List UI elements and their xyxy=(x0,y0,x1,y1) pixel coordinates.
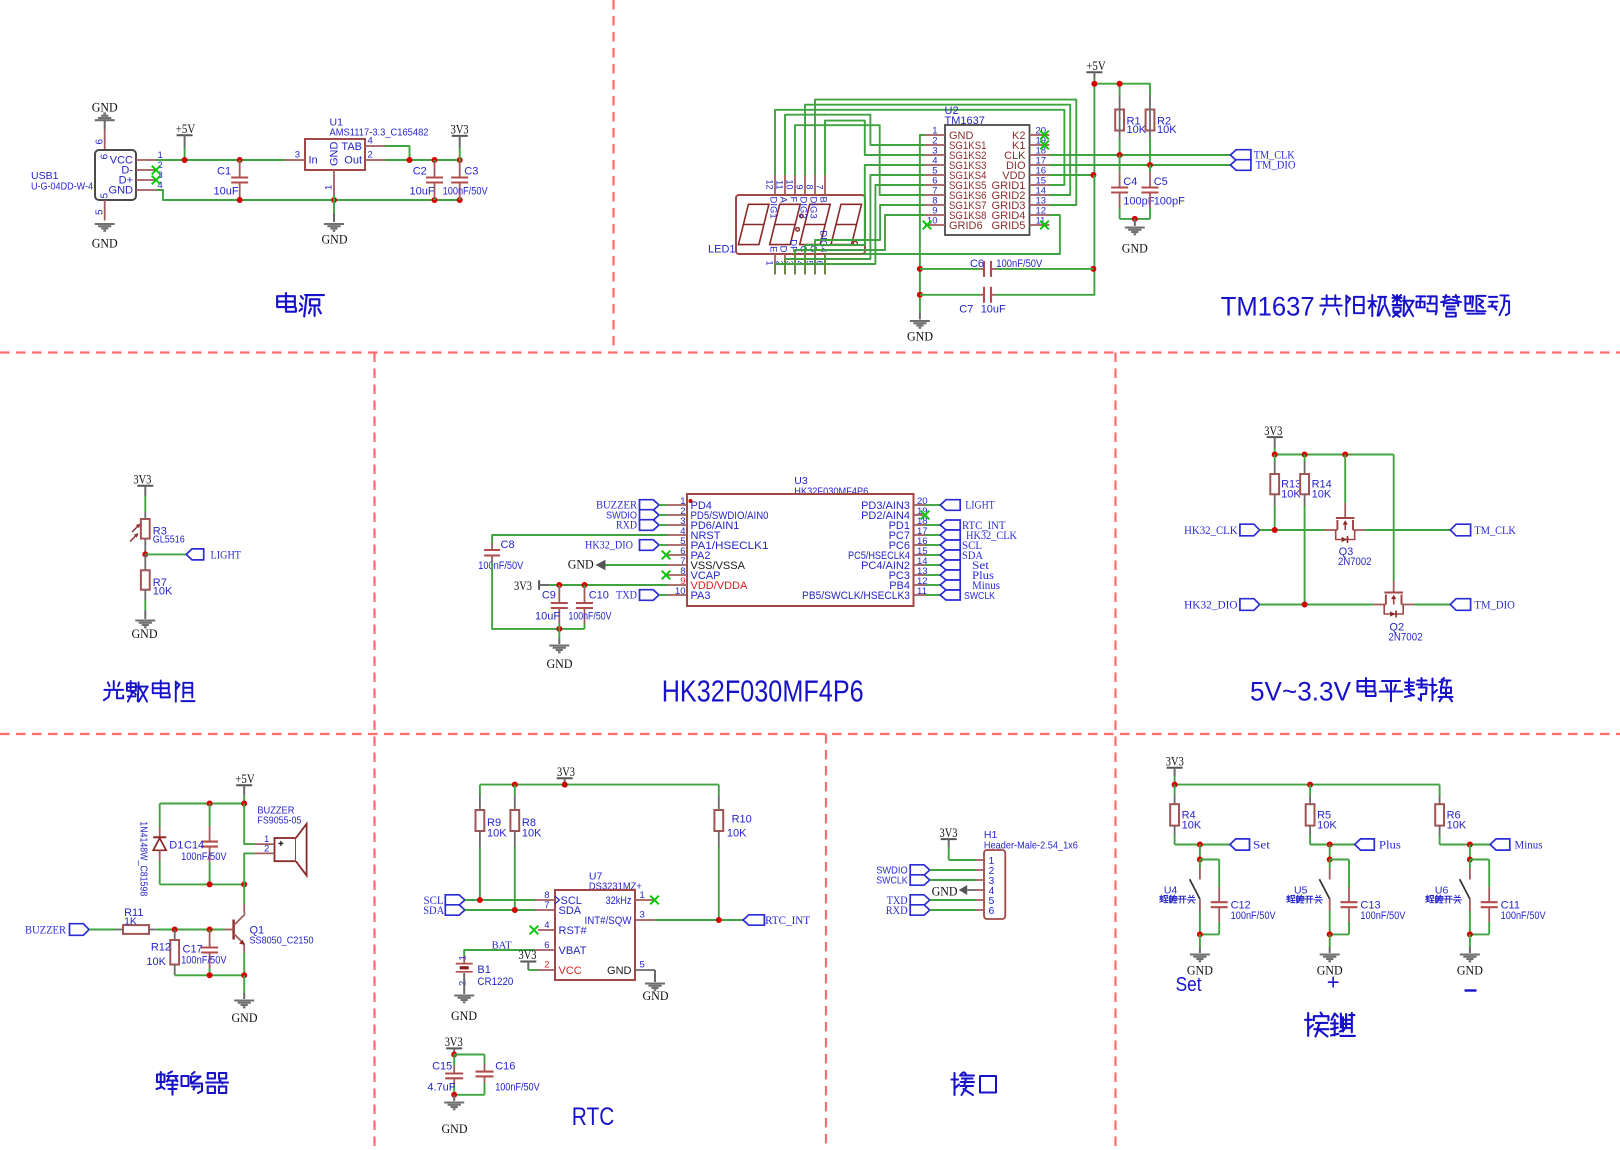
resistor R4 10K xyxy=(1174,785,1176,796)
svg-text:3V3: 3V3 xyxy=(557,765,575,779)
svg-text:C7: C7 xyxy=(959,304,973,316)
U2 pin 17 DIO xyxy=(1030,164,1050,166)
resistor R8 10K xyxy=(514,785,516,796)
U3 pin 13 PC3 xyxy=(914,574,926,576)
svg-text:3V3: 3V3 xyxy=(519,948,537,962)
svg-text:DIG1: DIG1 xyxy=(767,197,778,219)
svg-text:10uF: 10uF xyxy=(214,186,239,198)
no-connect K2 xyxy=(1040,131,1049,140)
no-connect K1 xyxy=(1040,141,1049,150)
resistor R1 10K xyxy=(1119,95,1121,110)
switch U5 tactile xyxy=(1329,860,1331,869)
svg-text:2: 2 xyxy=(544,960,549,971)
no-connect GRID5 xyxy=(1040,221,1049,230)
pin 4 TAB xyxy=(365,145,385,147)
net port SWDIO xyxy=(640,510,660,521)
wire segment D (pin2 to SG1KS4) xyxy=(785,175,925,259)
svg-text:6: 6 xyxy=(95,139,106,145)
svg-text:F: F xyxy=(787,197,798,203)
svg-text:1: 1 xyxy=(324,185,335,190)
resistor R13 10K xyxy=(1274,455,1276,463)
U2 pin 3 SG1KS2 xyxy=(925,154,945,156)
net port HK32_DIO xyxy=(640,540,660,551)
svg-text:C4: C4 xyxy=(1123,176,1137,188)
transistor Q3 2N7002 xyxy=(1344,455,1346,504)
svg-text:100nF/50V: 100nF/50V xyxy=(569,611,613,623)
LED1 bottom pin 5 G xyxy=(814,254,816,275)
capacitor C6 100nF/50V xyxy=(920,268,980,270)
svg-text:SWCLK: SWCLK xyxy=(876,875,908,887)
svg-text:GND: GND xyxy=(92,100,118,115)
svg-text:10K: 10K xyxy=(1157,124,1177,136)
svg-text:GND: GND xyxy=(1122,241,1148,256)
svg-text:+5V: +5V xyxy=(176,122,196,136)
svg-text:1: 1 xyxy=(764,261,774,266)
digit 4 outline xyxy=(831,204,862,244)
svg-text:C10: C10 xyxy=(589,590,609,602)
svg-text:R10: R10 xyxy=(732,813,752,825)
svg-text:7: 7 xyxy=(544,900,549,911)
svg-text:Out: Out xyxy=(344,155,362,167)
no-connect PA2 xyxy=(662,551,671,560)
wire collector xyxy=(243,884,245,904)
capacitor C1 10uF xyxy=(237,157,243,163)
svg-text:10K: 10K xyxy=(1312,488,1332,500)
svg-text:C3: C3 xyxy=(464,165,478,177)
svg-text:4: 4 xyxy=(368,136,373,147)
svg-text:GND: GND xyxy=(442,1121,468,1136)
net port BUZZER xyxy=(640,500,660,511)
svg-text:4: 4 xyxy=(544,920,549,931)
label - (blue) xyxy=(1465,989,1477,991)
LED1 bottom pin 2 D xyxy=(784,254,786,259)
net port SWCLK (H1) xyxy=(910,875,930,885)
net port HK32_CLK (level) xyxy=(1240,524,1260,536)
resistor R10 10K xyxy=(718,785,720,796)
svg-text:100nF/50V: 100nF/50V xyxy=(1231,910,1277,922)
svg-text:TM_DIO: TM_DIO xyxy=(1256,159,1296,171)
svg-text:In: In xyxy=(309,155,318,167)
svg-text:C6: C6 xyxy=(970,258,984,270)
svg-text:DIG2: DIG2 xyxy=(797,197,808,219)
net port Set xyxy=(925,564,940,566)
svg-text:D: D xyxy=(777,246,788,253)
svg-text:RXD: RXD xyxy=(886,905,908,917)
wire 3V3 rail (buttons) xyxy=(1175,784,1440,786)
svg-text:3V3: 3V3 xyxy=(514,579,532,593)
pin 1 VCC xyxy=(136,159,156,161)
svg-text:GND: GND xyxy=(643,988,669,1003)
H1 pin 6 xyxy=(976,909,984,911)
svg-text:GND: GND xyxy=(109,185,134,197)
U2 pin 7 SG1KS6 xyxy=(925,194,945,196)
wire NRST to C8 xyxy=(492,535,667,543)
svg-text:TM1637: TM1637 xyxy=(1221,292,1315,322)
U2 pin 16 VDD xyxy=(1030,174,1050,176)
wire segment G (pin5 to SG1KS7) xyxy=(815,205,925,254)
svg-text:100pF: 100pF xyxy=(1154,196,1185,208)
svg-text:3: 3 xyxy=(640,910,645,921)
svg-text:10uF: 10uF xyxy=(535,611,560,623)
svg-text:SDA: SDA xyxy=(559,905,582,917)
wire Q3 drain to TM_CLK xyxy=(1366,529,1451,531)
net port Minus xyxy=(925,584,940,586)
wire VCC to U1 In xyxy=(156,159,285,161)
svg-text:5: 5 xyxy=(640,960,645,971)
svg-text:SDA: SDA xyxy=(423,905,445,917)
svg-text:10K: 10K xyxy=(487,828,507,840)
svg-text:C9: C9 xyxy=(542,590,556,602)
ground GND (under C7) xyxy=(910,320,930,322)
U2 pin 2 SG1KS1 xyxy=(925,144,945,146)
svg-text:BAT: BAT xyxy=(492,940,512,952)
wire U2 GND pin1 down xyxy=(920,135,925,313)
net port RTC_INT (RTC) xyxy=(743,915,764,925)
capacitor C13 100nF/50V xyxy=(1330,859,1349,861)
svg-text:PB5/SWCLK/HSECLK3: PB5/SWCLK/HSECLK3 xyxy=(802,590,910,602)
U2 pin 1 GND xyxy=(925,134,945,136)
net port LIGHT (right) xyxy=(925,504,940,506)
capacitor C15 4.7uF xyxy=(453,1055,455,1067)
capacitor C16 100nF/50V xyxy=(454,1054,484,1056)
net port HK32_CLK xyxy=(925,534,940,536)
U7 pin 7 SDA xyxy=(535,909,555,911)
pin 2 D- xyxy=(136,169,156,171)
switch U4 tactile xyxy=(1199,860,1201,869)
svg-text:C16: C16 xyxy=(495,1061,515,1073)
svg-text:C15: C15 xyxy=(432,1061,452,1073)
svg-text:U5: U5 xyxy=(1294,884,1308,896)
svg-text:GND: GND xyxy=(932,883,958,898)
svg-text:GND: GND xyxy=(547,656,573,671)
wire +5V top rail xyxy=(160,803,245,805)
svg-text:Plus: Plus xyxy=(1379,840,1402,852)
body diode xyxy=(1384,605,1403,615)
wire SCL xyxy=(465,899,535,901)
net port Plus xyxy=(1355,839,1375,850)
U3 pin 8 VCAP xyxy=(667,574,687,576)
svg-text:LIGHT: LIGHT xyxy=(965,500,995,512)
battery B1 CR1220 xyxy=(463,956,465,964)
svg-text:GL5516: GL5516 xyxy=(153,534,185,546)
wire GND net bottom xyxy=(156,190,460,200)
svg-text:1: 1 xyxy=(458,955,469,960)
net port RTC_INT xyxy=(925,524,940,526)
net port SWCLK xyxy=(925,594,940,596)
net port TM_CLK xyxy=(1230,150,1251,161)
wire to LIGHT port xyxy=(145,553,186,555)
U2 pin 19 K1 xyxy=(1030,144,1050,146)
wire segment A (pin11 to SG1KS1) xyxy=(785,115,925,175)
substrate arrow xyxy=(1344,523,1346,531)
svg-text:B: B xyxy=(817,197,828,203)
wire +5V rail xyxy=(1094,84,1150,95)
ground GND (buzzer) xyxy=(234,999,254,1001)
svg-text:100nF/50V: 100nF/50V xyxy=(495,1082,540,1094)
svg-text:PA3: PA3 xyxy=(691,590,711,602)
svg-text:RST#: RST# xyxy=(559,925,588,937)
wire pin1 xyxy=(949,859,976,861)
U2 pin 18 CLK xyxy=(1030,154,1050,156)
ground GND (C9) xyxy=(558,629,560,639)
svg-text:FS9055-05: FS9055-05 xyxy=(257,815,301,827)
wire VDD to +5V xyxy=(1050,174,1095,176)
svg-text:6: 6 xyxy=(989,905,995,917)
svg-text:C5: C5 xyxy=(1154,176,1168,188)
decimal point xyxy=(853,241,857,245)
LED1 top pin 10 F xyxy=(794,175,796,195)
svg-text:Set: Set xyxy=(1176,974,1202,996)
U3 pin 20 PD3/AIN3 xyxy=(914,504,926,506)
connector USB1 U-G-04DD-W-4 xyxy=(95,150,136,200)
U2 pin 8 SG1KS7 xyxy=(925,204,945,206)
svg-text:10K: 10K xyxy=(1317,820,1337,832)
svg-text:10: 10 xyxy=(784,179,794,189)
resistor R5 10K xyxy=(1309,785,1311,796)
title 接口 xyxy=(952,1073,975,1096)
svg-text:3V3: 3V3 xyxy=(451,123,469,137)
wire DIG2 (pin9 to GRID2) xyxy=(805,105,1070,195)
svg-text:TXD: TXD xyxy=(616,590,637,602)
capacitor C17 100nF/50V xyxy=(209,930,211,933)
svg-text:100nF/50V: 100nF/50V xyxy=(1501,910,1547,922)
no-connect D+ xyxy=(152,176,161,185)
U3 pin 7 VSS/VSSA xyxy=(667,564,687,566)
U2 pin 6 SG1KS5 xyxy=(925,184,945,186)
U3 pin 18 PD1 xyxy=(914,524,926,526)
H1 pin 2 xyxy=(976,869,984,871)
svg-text:HK32F030MF4P6: HK32F030MF4P6 xyxy=(662,674,864,709)
svg-text:+5V: +5V xyxy=(235,772,255,786)
svg-text:GND: GND xyxy=(322,232,348,247)
svg-text:GND: GND xyxy=(92,236,118,251)
svg-text:VCC: VCC xyxy=(559,965,582,977)
svg-text:10K: 10K xyxy=(1127,124,1147,136)
U3 pin 10 PA3 xyxy=(667,594,687,596)
svg-text:100nF/50V: 100nF/50V xyxy=(1360,910,1406,922)
svg-text:11: 11 xyxy=(774,180,784,189)
wire CLK to TM_CLK xyxy=(1050,154,1231,156)
svg-text:3V3: 3V3 xyxy=(445,1035,463,1049)
LED1 top pin 12 DIG1 xyxy=(774,175,776,195)
wire Set row xyxy=(1175,844,1230,846)
svg-text:GND: GND xyxy=(568,557,594,572)
svg-text:+5V: +5V xyxy=(1086,59,1106,73)
wire branch down xyxy=(1199,845,1201,860)
wire HK32_CLK to Q3 source xyxy=(1260,529,1325,531)
digit 2 outline xyxy=(770,204,801,244)
wire DIO to TM_DIO xyxy=(1050,164,1231,166)
display LED1 4-digit 7-segment xyxy=(736,195,865,254)
LED1 bottom pin 6 DIG4 xyxy=(824,254,826,275)
net port RXD xyxy=(640,520,660,531)
wire SDA xyxy=(465,909,535,911)
net port TM_DIO (level) xyxy=(1450,599,1470,611)
svg-text:SWCLK: SWCLK xyxy=(964,590,995,602)
wire segment B (pin7 to SG1KS2) xyxy=(825,121,925,175)
svg-text:RTC: RTC xyxy=(572,1103,615,1131)
svg-text:9: 9 xyxy=(794,184,804,189)
svg-text:100nF/50V: 100nF/50V xyxy=(181,851,227,863)
U3 pin 9 VDD/VDDA xyxy=(667,584,687,586)
svg-text:3: 3 xyxy=(295,150,300,161)
LED1 bottom pin 1 E xyxy=(774,254,776,264)
svg-text:3V3: 3V3 xyxy=(1166,755,1184,769)
svg-text:3V3: 3V3 xyxy=(940,826,958,840)
wire to ground xyxy=(1197,931,1203,937)
net port HK32_DIO (level) xyxy=(1240,599,1260,611)
svg-text:10uF: 10uF xyxy=(410,186,435,198)
svg-text:32kHz: 32kHz xyxy=(606,895,632,907)
U7 pin 6 VBAT xyxy=(535,949,555,951)
wire 3V3 to Q2 gate xyxy=(1393,455,1395,578)
svg-text:TAB: TAB xyxy=(341,141,362,153)
wire DIG1 (pin12 to GRID1) xyxy=(775,110,1064,185)
wire 3V3 to VDD/VDDA xyxy=(549,584,667,586)
svg-text:7: 7 xyxy=(814,184,824,189)
wire Out to 3V3 xyxy=(385,159,460,161)
wire Minus row xyxy=(1440,844,1491,846)
svg-text:U-G-04DD-W-4: U-G-04DD-W-4 xyxy=(31,181,93,193)
LED1 top pin 8 DIG3 xyxy=(814,175,816,195)
svg-text:B1: B1 xyxy=(477,964,490,976)
U2 pin 10 GRID6 xyxy=(925,224,945,226)
no-connect GRID6 xyxy=(923,221,932,230)
capacitor C12 100nF/50V xyxy=(1200,859,1219,861)
net port TXD xyxy=(640,590,660,601)
U2 pin 11 GRID5 xyxy=(1030,224,1050,226)
gate bar xyxy=(1336,517,1355,519)
wire segment C (pin4 to SG1KS3) xyxy=(805,165,925,254)
wire INT to RTC_INT xyxy=(655,919,743,921)
svg-text:3V3: 3V3 xyxy=(133,473,151,487)
net port SCL (RTC) xyxy=(445,895,465,905)
svg-text:A: A xyxy=(777,197,788,204)
wire to ground xyxy=(1467,931,1473,937)
U7 pin 2 VCC xyxy=(538,969,556,971)
U7 pin 4 RST# xyxy=(538,929,555,931)
U3 pin 19 PD2/AIN4 xyxy=(914,514,926,516)
wire VBAT to battery xyxy=(464,950,535,956)
switch U6 tactile xyxy=(1469,860,1471,869)
LED1 top pin 11 A xyxy=(784,175,786,195)
svg-text:C8: C8 xyxy=(501,539,515,551)
U2 pin 13 GRID3 xyxy=(1030,204,1050,206)
U3 pin 15 PC5/HSECLK4 xyxy=(914,554,926,556)
capacitor C8 100nF/50V xyxy=(491,543,493,550)
svg-text:HK32_CLK: HK32_CLK xyxy=(1184,525,1238,537)
wire U1 GND to ground xyxy=(333,195,335,213)
resistor R7 10K xyxy=(144,554,146,570)
resistor R6 10K xyxy=(1439,785,1441,796)
net port Plus xyxy=(925,574,940,576)
gate lead xyxy=(1393,581,1395,593)
title 按键 xyxy=(1305,1013,1328,1037)
wire GND pin5 xyxy=(654,970,656,982)
ground GND (U1) xyxy=(324,223,344,225)
svg-text:GND: GND xyxy=(451,1008,477,1023)
net port SCL xyxy=(925,544,940,546)
svg-text:10K: 10K xyxy=(153,585,173,597)
wire 3V3 rail xyxy=(1275,454,1394,456)
wire pin6 xyxy=(104,130,106,151)
transistor Q1 SS8050_C2150 xyxy=(232,920,234,940)
svg-text:R12: R12 xyxy=(151,942,171,954)
svg-text:2: 2 xyxy=(368,150,373,161)
svg-text:+: + xyxy=(1327,970,1340,995)
wire VDD rail down to C6/C7 xyxy=(996,175,1095,295)
svg-text:10: 10 xyxy=(927,216,938,227)
U2 pin 20 K2 xyxy=(1030,134,1050,136)
channel contacts xyxy=(1336,520,1338,530)
net port TXD (H1) xyxy=(910,895,930,905)
svg-text:GRID5: GRID5 xyxy=(992,220,1026,232)
ground GND (U5) xyxy=(1320,953,1340,955)
wire to ground xyxy=(1327,931,1333,937)
capacitor C3 100nF/50V xyxy=(459,160,461,162)
svg-text:AMS1117-3.3_C165482: AMS1117-3.3_C165482 xyxy=(330,127,429,139)
svg-text:C14: C14 xyxy=(184,840,204,852)
pin 3 In xyxy=(285,159,305,161)
svg-text:E: E xyxy=(767,246,778,252)
LED1 bottom pin 3 DP xyxy=(794,254,796,275)
U2 pin 9 SG1KS8 xyxy=(925,214,945,216)
no-connect D- xyxy=(152,166,161,175)
svg-text:1N4148W_C81598: 1N4148W_C81598 xyxy=(138,821,149,896)
U7 pin 3 INT#/SQW xyxy=(635,919,655,921)
U3 pin 3 PD6/AIN1 xyxy=(667,524,687,526)
svg-text:TM_DIO: TM_DIO xyxy=(1474,599,1515,611)
svg-text:CR1220: CR1220 xyxy=(477,976,513,988)
svg-text:2: 2 xyxy=(458,981,469,986)
svg-text:10uF: 10uF xyxy=(981,304,1006,316)
svg-text:6: 6 xyxy=(544,940,549,951)
U2 pin 4 SG1KS3 xyxy=(925,164,945,166)
H1 pin 4 xyxy=(976,889,984,891)
U3 pin 17 PC7 xyxy=(914,534,926,536)
U2 pin 14 GRID2 xyxy=(1030,194,1050,196)
svg-text:2: 2 xyxy=(264,844,269,855)
wire C4-C5 gnd xyxy=(1120,218,1150,220)
svg-text:10K: 10K xyxy=(522,828,542,840)
svg-text:10: 10 xyxy=(675,586,686,597)
capacitor C14 100nF/50V xyxy=(209,804,211,827)
LED1 top pin 7 B xyxy=(824,175,826,195)
body diode xyxy=(1336,530,1355,540)
svg-text:1K: 1K xyxy=(124,915,137,927)
svg-text:LIGHT: LIGHT xyxy=(211,548,242,562)
title 光敏电阻 xyxy=(104,681,123,700)
H1 pin 5 xyxy=(976,899,984,901)
svg-text:GND: GND xyxy=(1457,962,1483,977)
ground GND (U6) xyxy=(1460,953,1480,955)
svg-text:8: 8 xyxy=(804,184,814,189)
svg-text:10K: 10K xyxy=(727,828,747,840)
svg-text:12: 12 xyxy=(764,179,774,189)
net port LIGHT xyxy=(186,549,204,560)
digit 3 outline xyxy=(800,204,831,244)
net port Set xyxy=(1230,839,1250,850)
net port TM_DIO xyxy=(1230,160,1251,171)
pin 2 Out xyxy=(365,159,385,161)
wire Q2 drain to TM_DIO xyxy=(1414,604,1450,606)
digit 1 outline xyxy=(738,204,769,244)
U3 pin 4 NRST xyxy=(667,534,687,536)
svg-text:5V~3.3V: 5V~3.3V xyxy=(1250,677,1351,707)
net port Minus xyxy=(1490,839,1510,850)
U2 pin 5 SG1KS4 xyxy=(925,174,945,176)
ground GND (USB pin 5) xyxy=(95,223,115,225)
